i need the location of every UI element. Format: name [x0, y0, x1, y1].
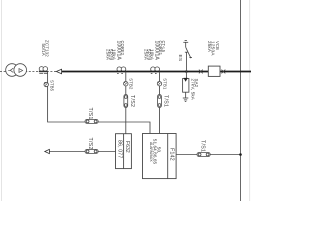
right page border: [249, 0, 251, 201]
svg-text:CT-L5: CT-L5: [161, 41, 166, 53]
svg-text:STB5: STB5: [49, 80, 54, 92]
ZCT lower bars: [39, 72, 43, 74]
wire: CORE2 secondary down to F632: [125, 72, 127, 134]
wire: ZCT secondary down and across to F142: [48, 72, 150, 134]
svg-text:50,: 50,: [156, 147, 161, 154]
CT CORE1 lower ticks: [151, 72, 153, 74]
ZCT bushing bumps: [39, 67, 47, 72]
junction on feeder: [239, 153, 242, 156]
wire: CORE1 secondary down to F142: [159, 72, 161, 134]
wire: F142 output to feeder: [176, 154, 240, 156]
T/S1 test switch (vertical stadium): [158, 95, 162, 108]
test switch on ZCT line (horizontal stadium): [85, 119, 98, 123]
surge arrester SA2: [183, 72, 189, 102]
svg-text:CORE2: CORE2: [120, 41, 125, 56]
arrow head at left of F632 input: [45, 149, 50, 153]
transformer primary winding symbol (wye): [8, 68, 13, 72]
svg-text:T/S2: T/S2: [129, 95, 135, 107]
STB5 terminal on ZCT secondary: [44, 82, 48, 86]
CT CORE2 lower ticks: [117, 72, 119, 74]
junction on main bus: [185, 70, 188, 73]
wire: differential CT input to F632: [49, 151, 115, 153]
wire: outgoing feeder vertical line: [240, 0, 242, 201]
transformer T1 (two overlapping circles): [6, 64, 27, 77]
svg-text:VCB: VCB: [215, 41, 220, 50]
relay F142 box: [143, 134, 177, 179]
STB1 terminal: [157, 82, 161, 86]
CT CORE2 bumps: [117, 67, 126, 72]
relay F632 box: [116, 134, 132, 169]
earthing switch ES: [183, 40, 192, 71]
svg-text:T/S1: T/S1: [162, 95, 168, 107]
left page border: [1, 0, 3, 201]
svg-text:SA2: SA2: [194, 79, 199, 88]
CT CORE1 bumps: [151, 67, 160, 72]
svg-text:T/S1: T/S1: [199, 140, 205, 152]
svg-text:STB2: STB2: [129, 78, 134, 90]
svg-text:ZCT132: ZCT132: [44, 40, 49, 57]
T/S2 test switch (vertical stadium): [124, 95, 128, 108]
svg-text:86, 077: 86, 077: [116, 140, 122, 158]
STB2 terminal: [124, 82, 128, 86]
svg-text:T/S2: T/S2: [87, 138, 93, 150]
arrow head at main line start: [56, 69, 61, 74]
circuit breaker VCB with isolating crosses: [199, 70, 225, 74]
svg-text:T/S1: T/S1: [87, 108, 93, 120]
svg-text:ES: ES: [177, 55, 183, 62]
wire: dashed primary line from transformer: [0, 71, 57, 73]
transformer secondary winding symbol (delta): [19, 69, 23, 73]
svg-text:1250A: 1250A: [210, 41, 216, 56]
main bus line: [61, 71, 251, 73]
ZCT base bar: [39, 71, 48, 73]
svg-text:ALARM/AUX: ALARM/AUX: [149, 142, 153, 162]
svg-text:STB1: STB1: [162, 78, 167, 90]
svg-text:F632: F632: [124, 141, 130, 153]
test switch on F142 output (horizontal stadium): [197, 153, 210, 157]
test switch on F632 input (horizontal stadium): [85, 149, 98, 153]
svg-text:F142: F142: [169, 148, 175, 161]
